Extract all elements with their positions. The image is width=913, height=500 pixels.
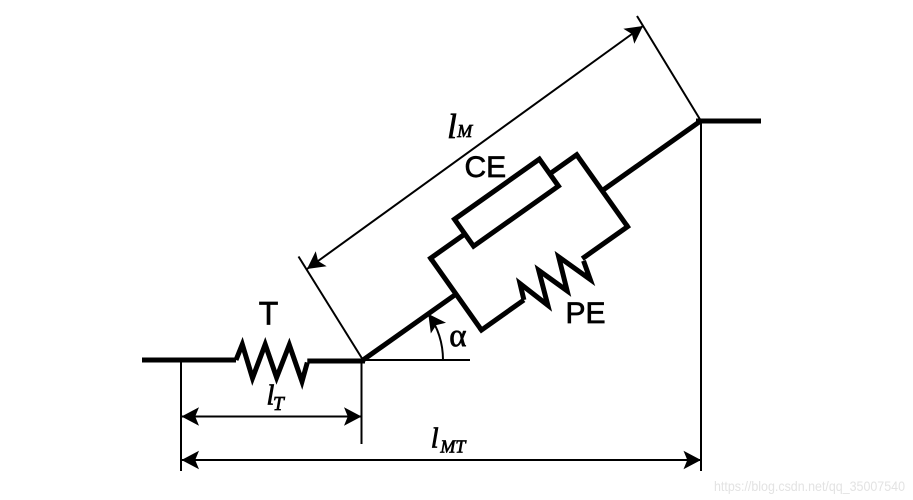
- svg-text:PE: PE: [566, 297, 606, 330]
- extension line lM upper-right: [637, 16, 701, 121]
- wire tendon right segment: [307, 359, 365, 364]
- dimension line lT: [182, 416, 362, 418]
- wire upper branch right: [548, 153, 579, 175]
- extension line right vertical: [700, 123, 702, 471]
- svg-text:l: l: [447, 107, 457, 146]
- node right bar: [577, 155, 628, 227]
- svg-text:M: M: [456, 121, 473, 141]
- wire lower branch left: [479, 300, 523, 331]
- angle alpha arc: [428, 314, 443, 360]
- dimension line lM: [307, 26, 643, 269]
- svg-text:l: l: [431, 423, 439, 454]
- wire tendon left segment: [142, 358, 236, 363]
- arrowhead lT right: [344, 407, 362, 426]
- arrowhead lMT right: [684, 451, 702, 470]
- node left bar: [431, 258, 482, 330]
- angle alpha arrowhead: [421, 309, 446, 334]
- extension line left vertical: [180, 360, 182, 471]
- svg-text:CE: CE: [465, 151, 507, 184]
- svg-text:α: α: [449, 318, 466, 354]
- spring T (tendon): [236, 344, 307, 381]
- spring PE (parallel elastic element): [515, 246, 595, 317]
- wire muscle left (junction to box left bar): [361, 294, 456, 361]
- dimension line lMT: [182, 459, 702, 461]
- wire top-right attachment: [696, 119, 761, 124]
- svg-text:https://blog.csdn.net/qq_35007: https://blog.csdn.net/qq_35007540: [714, 478, 905, 494]
- arrowhead lM lower-left: [302, 251, 327, 276]
- node junction baseline (thin horizontal reference line): [363, 359, 470, 361]
- wire muscle right (box right bar to top end): [602, 121, 701, 191]
- arrowhead lM upper-right: [623, 18, 648, 43]
- extension line mid vertical: [361, 360, 363, 444]
- extension line lM lower-left: [299, 257, 364, 361]
- arrowhead lT left: [182, 407, 200, 426]
- arrowhead lMT left: [182, 451, 200, 470]
- svg-text:T: T: [273, 394, 285, 415]
- svg-text:T: T: [259, 296, 279, 332]
- wire upper branch left: [429, 233, 467, 260]
- muscle assembly rotated group: [326, 70, 739, 414]
- svg-text:MT: MT: [439, 436, 467, 456]
- wire lower branch right: [582, 225, 629, 259]
- contractile element CE box: [454, 159, 558, 246]
